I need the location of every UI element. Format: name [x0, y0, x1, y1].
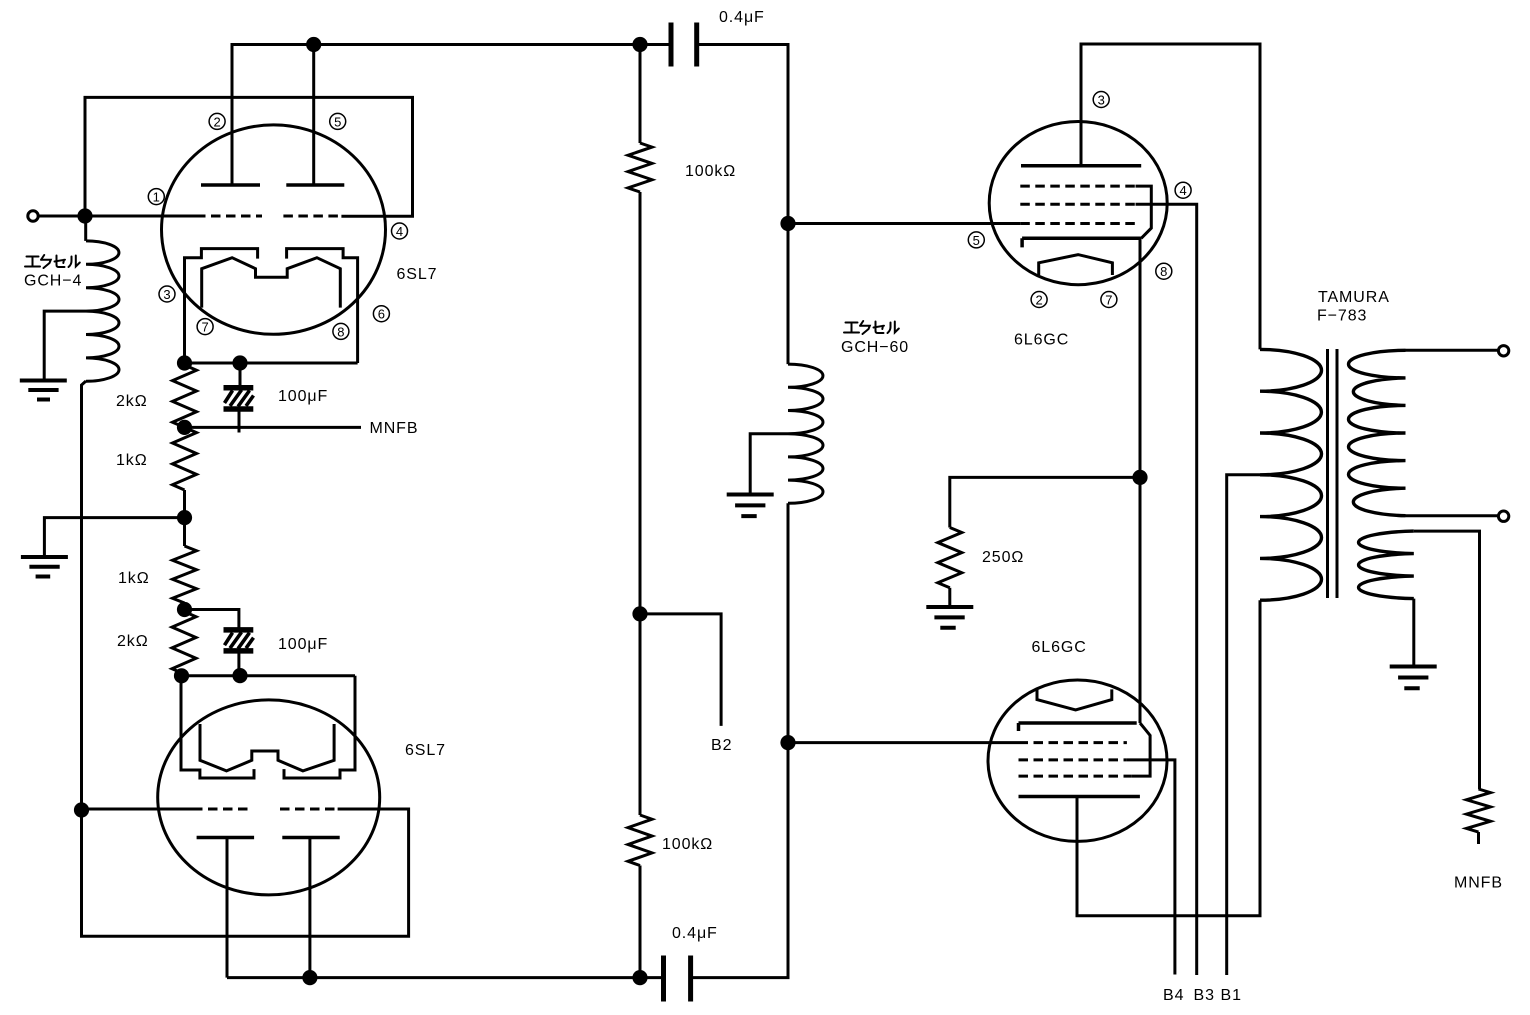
svg-text:B3: B3	[1194, 987, 1215, 1004]
inductor L1 GCH-4 coil	[86, 241, 119, 381]
svg-text:100μF: 100μF	[278, 636, 328, 653]
node V4 grid drive junction	[780, 735, 795, 750]
svg-text:4: 4	[396, 224, 403, 239]
node output terminal 1	[1498, 346, 1508, 356]
node output terminal 2	[1498, 511, 1508, 521]
resistor R7 250ohm	[938, 528, 962, 588]
svg-text:1: 1	[153, 190, 160, 205]
tube V1 cathode bracket left pin3	[185, 249, 258, 363]
pin 1 V1	[148, 189, 164, 205]
svg-text:0.4μF: 0.4μF	[672, 925, 718, 942]
wire R3 to cap junction	[183, 603, 186, 610]
wire primary bottom to V4 plate	[1077, 600, 1260, 916]
pin 2 V1	[209, 113, 225, 129]
svg-text:4: 4	[1179, 183, 1186, 198]
resistor R1 2k upper	[173, 365, 197, 427]
svg-text:100kΩ: 100kΩ	[685, 163, 736, 180]
tube V2 cathode bracket right	[284, 676, 355, 778]
pin 7 V1	[197, 319, 213, 335]
transformer T1 primary winding	[1260, 349, 1322, 600]
wire bottom rail to coupling cap	[227, 976, 664, 979]
wire L1 tap to ground	[44, 311, 86, 380]
wire input to V1 grid pin1	[38, 215, 196, 218]
wire 100k divider column upper	[639, 45, 642, 144]
svg-text:B1: B1	[1221, 987, 1242, 1004]
tube V2 cathode bracket left	[181, 676, 254, 778]
tube V3 control grid dashes	[1020, 222, 1135, 225]
pin 8 V3	[1156, 263, 1172, 279]
tube V2 6SL7 envelope	[158, 700, 380, 895]
svg-text:B4: B4	[1163, 987, 1184, 1004]
pin 2 V3	[1031, 292, 1047, 308]
tube V3 screen dashes	[1020, 203, 1135, 206]
node V1 pin5 plate rail junction	[306, 37, 321, 52]
wire L1 bottom to V2 grid rectangle	[82, 381, 409, 936]
wire secondary upper to output terminal 1	[1406, 349, 1499, 352]
wire top rail after cap to GCH-60 column	[697, 45, 788, 365]
wire center junction to ground	[44, 518, 184, 557]
wire B2 stub	[640, 614, 721, 726]
tube V4 beam plate dashes	[1019, 775, 1132, 778]
transformer T1 core	[1328, 349, 1338, 598]
svg-text:B2: B2	[711, 737, 732, 754]
capacitor C4 0.4uF bottom bars	[664, 956, 691, 1002]
wire R2 to center junction	[183, 490, 186, 518]
wire 100k divider column middle	[639, 192, 642, 815]
tube V2 grid dashes left	[193, 808, 251, 811]
svg-text:2kΩ: 2kΩ	[117, 633, 149, 650]
svg-text:0.4μF: 0.4μF	[719, 9, 765, 26]
svg-text:6: 6	[378, 307, 385, 322]
node bottom rail divider junction	[632, 970, 647, 985]
ground GND4	[926, 607, 973, 628]
ground GND5	[1390, 667, 1437, 689]
transformer T1 secondary upper winding	[1349, 350, 1406, 515]
tube V3 beam plate dashes	[1020, 185, 1135, 188]
wire center junction to R3	[183, 518, 186, 546]
capacitor C3 100uF plates	[224, 630, 254, 651]
svg-text:F−783: F−783	[1317, 308, 1367, 325]
tube V1 grid pin1 dashes	[196, 215, 262, 218]
tube V4 screen dashes	[1019, 758, 1127, 761]
wire V2 grid tie rectangle top bus	[181, 674, 355, 677]
resistor R6 100k lower	[628, 815, 652, 866]
svg-text:2: 2	[213, 114, 220, 129]
wire grid tie rectangle to pin4	[85, 97, 413, 216]
wire drive line to V4 grid	[788, 741, 1019, 744]
wire V2 grid pin tee to dashes	[82, 808, 194, 811]
wire V2 plate leads to bottom rail	[227, 838, 310, 978]
svg-text:TAMURA: TAMURA	[1318, 289, 1390, 306]
capacitor C2 100uF plates	[224, 388, 254, 409]
svg-text:7: 7	[1105, 292, 1112, 307]
svg-text:2: 2	[1035, 292, 1042, 307]
node V2 grid tee junction	[74, 802, 89, 817]
svg-text:250Ω: 250Ω	[982, 549, 1024, 566]
tube V4 cathode bar	[1019, 723, 1137, 731]
pin 7 V3	[1101, 292, 1117, 308]
svg-text:1kΩ: 1kΩ	[116, 452, 148, 469]
wire R8 bottom stub	[1477, 832, 1480, 844]
tube V1 plate bars	[201, 183, 344, 187]
wire B3 from V3 screen pin4	[1136, 204, 1197, 975]
pin 5 V3	[968, 232, 984, 248]
svg-text:MNFB: MNFB	[1454, 875, 1503, 892]
tube V3 6L6GC envelope	[989, 122, 1167, 285]
tube V3 beam plate to cathode link	[1136, 186, 1152, 238]
ground GND2	[21, 557, 68, 577]
value label katakana ekuseru left	[25, 255, 80, 268]
tube V3 cathode bar pin8	[1022, 238, 1141, 247]
wire V1 plate pin5 lead	[312, 45, 315, 186]
pin 6 V1	[373, 306, 389, 322]
ground GND1	[20, 381, 67, 400]
pin 3 V1	[159, 286, 175, 302]
tube V2 plate bars	[197, 836, 340, 840]
wire V3 plate to transformer primary top	[1081, 44, 1260, 349]
tube V1 cathode bracket right pin6	[287, 249, 358, 363]
svg-text:6SL7: 6SL7	[405, 742, 446, 759]
inductor L2 GCH-60 coil	[788, 364, 823, 503]
node V2 cathode junction	[174, 668, 189, 683]
svg-text:8: 8	[1160, 264, 1167, 279]
svg-text:MNFB: MNFB	[370, 420, 419, 437]
wire B4 from V4 screen	[1127, 760, 1175, 975]
node V2 plate rail junction	[302, 970, 317, 985]
node cathode bias junction	[1132, 470, 1147, 485]
wire secondary lower bottom to ground	[1412, 599, 1415, 666]
svg-text:1kΩ: 1kΩ	[118, 570, 150, 587]
capacitor C2 100uF upper leads	[239, 363, 240, 433]
wire R7 to ground	[948, 588, 951, 607]
wire L2 tap to ground	[750, 434, 788, 494]
node V3 grid drive junction	[780, 216, 795, 231]
node C3 bottom junction	[232, 668, 247, 683]
wire B+ top rail from V1 plates to coupling cap	[232, 45, 669, 186]
svg-text:7: 7	[201, 320, 208, 335]
wire drive line to V3 grid pin5	[788, 222, 1020, 225]
tube V3 plate bar	[1021, 164, 1141, 168]
node input tee junction	[77, 208, 92, 223]
tube V2 grid dashes right	[280, 808, 338, 811]
wire B1 from primary center tap	[1227, 475, 1260, 975]
wire secondary lower top to MNFB resistor	[1414, 531, 1480, 789]
node top rail to divider junction	[632, 37, 647, 52]
svg-text:5: 5	[334, 114, 341, 129]
capacitor C3 hatch	[225, 632, 254, 649]
node input terminal	[28, 211, 38, 221]
capacitor C3 100uF lower link	[185, 610, 239, 630]
tube V4 beam plate to cathode link	[1132, 723, 1150, 776]
resistor R4 2k lower	[172, 612, 196, 674]
svg-text:5: 5	[973, 233, 980, 248]
tube V1 heater filament	[202, 258, 341, 308]
tube V4 control grid dashes	[1019, 741, 1127, 744]
svg-text:3: 3	[1098, 92, 1105, 107]
resistor R5 100k upper	[628, 143, 652, 192]
tube V1 grid pin4 dashes	[283, 215, 341, 218]
tube V4 plate bar	[1019, 795, 1140, 799]
capacitor C1 0.4uF top bars	[671, 23, 697, 67]
svg-text:3: 3	[163, 287, 170, 302]
node MNFB tap junction	[177, 420, 192, 435]
ground GND3	[727, 495, 774, 517]
pin 3 V3	[1093, 92, 1109, 108]
wire V3 cathode column to V4 cathode	[1139, 238, 1142, 723]
svg-text:6SL7: 6SL7	[397, 266, 438, 283]
svg-text:100μF: 100μF	[278, 388, 328, 405]
node divider ground junction	[177, 510, 192, 525]
wire bottom rail right of cap to GCH-60 column	[691, 503, 788, 977]
tube V2 heater filament	[200, 724, 334, 771]
inductor L1 GCH-4 top lead	[84, 216, 87, 241]
wire cathode junction to bias resistor	[950, 477, 1140, 527]
tube V4 6L6GC envelope	[988, 680, 1167, 841]
capacitor C2 hatch	[225, 390, 254, 407]
pin 5 V1	[330, 113, 346, 129]
svg-text:2kΩ: 2kΩ	[116, 393, 148, 410]
node B2 tee junction	[632, 606, 647, 621]
svg-text:100kΩ: 100kΩ	[662, 836, 713, 853]
pin 4 V3	[1175, 182, 1191, 198]
node C3 tap junction	[177, 602, 192, 617]
node C2 top junction	[232, 355, 247, 370]
svg-text:8: 8	[337, 324, 344, 339]
svg-text:GCH−60: GCH−60	[841, 339, 909, 356]
tube V1 6SL7 envelope	[162, 125, 386, 334]
transformer T1 secondary lower winding	[1359, 531, 1414, 599]
resistor R2 1k upper	[173, 427, 197, 490]
svg-text:6L6GC: 6L6GC	[1032, 639, 1087, 656]
wire 100k divider column bottom	[639, 866, 642, 978]
wire V1 cathode bottom bus	[185, 362, 358, 365]
pin 4 V1	[392, 223, 408, 239]
tube V4 heater pentagon	[1037, 689, 1112, 710]
capacitor C3 bottom lead	[237, 651, 240, 676]
wire MNFB tap line	[185, 426, 362, 429]
resistor R8 MNFB feedback	[1467, 789, 1491, 832]
pin 8 V1	[333, 323, 349, 339]
resistor R3 1k lower	[173, 546, 197, 603]
wire secondary upper bottom to output terminal 2	[1406, 514, 1499, 517]
value label katakana ekuseru right	[844, 321, 899, 334]
tube V3 heater pentagon	[1039, 255, 1113, 275]
svg-text:GCH−4: GCH−4	[24, 273, 82, 290]
node V1 cathode junction A	[177, 355, 192, 370]
svg-text:6L6GC: 6L6GC	[1014, 332, 1069, 349]
